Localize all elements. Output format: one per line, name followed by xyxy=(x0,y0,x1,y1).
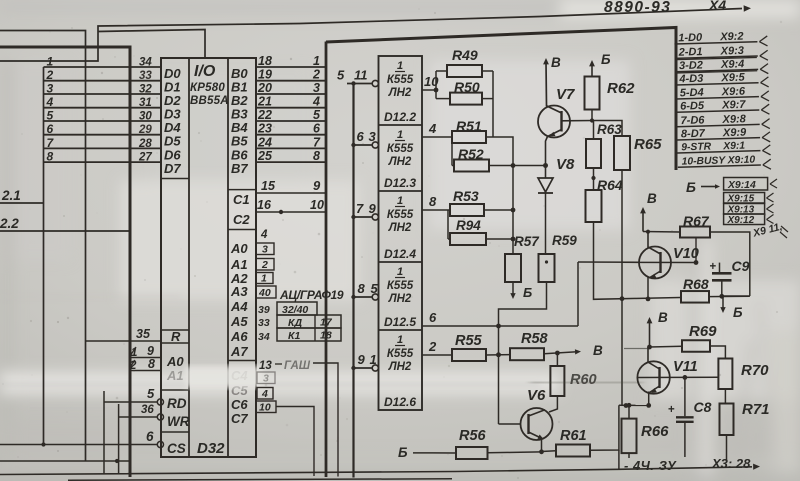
label R57 xyxy=(514,234,540,300)
svg-text:Х9:8: Х9:8 xyxy=(721,113,746,126)
pin box 3 (A0) xyxy=(256,243,274,256)
power B arrow (V10) xyxy=(640,191,657,232)
svg-text:40: 40 xyxy=(258,287,271,299)
svg-text:5: 5 xyxy=(371,281,379,296)
resistor R56 xyxy=(432,447,542,459)
svg-text:R68: R68 xyxy=(683,276,709,292)
svg-text:Х9:2: Х9:2 xyxy=(719,31,744,44)
svg-text:17: 17 xyxy=(320,317,333,329)
label net 5 xyxy=(313,108,321,122)
label pin 23 xyxy=(257,122,272,136)
svg-text:С7: С7 xyxy=(231,411,248,426)
svg-text:R67: R67 xyxy=(683,213,710,229)
label output 4 xyxy=(428,121,437,136)
label А5 pin xyxy=(230,314,248,329)
wire net 2.2 xyxy=(0,230,130,232)
svg-text:С9: С9 xyxy=(732,258,750,274)
pin circle CS xyxy=(157,441,163,447)
label pin 8 xyxy=(148,357,155,371)
inverter input pin 1 wire xyxy=(351,365,378,371)
svg-text:ЛН2: ЛН2 xyxy=(388,87,412,99)
power B arrow (V7 collector) xyxy=(551,55,561,70)
svg-text:CS: CS xyxy=(167,441,186,456)
svg-text:К555: К555 xyxy=(387,143,414,155)
label row number 7 xyxy=(47,136,55,150)
svg-text:9: 9 xyxy=(358,352,366,367)
svg-text:13: 13 xyxy=(259,360,272,372)
pin circle WR xyxy=(157,414,163,420)
resistor R55 xyxy=(452,349,510,361)
svg-text:33: 33 xyxy=(258,317,270,329)
label В1 xyxy=(231,80,248,95)
svg-text:8: 8 xyxy=(358,281,366,296)
svg-text:5: 5 xyxy=(313,108,321,122)
wire R51 R52 left tie xyxy=(451,137,453,166)
label А3 pin xyxy=(230,284,248,299)
boxed net Х9:13 xyxy=(724,204,774,216)
svg-text:В: В xyxy=(647,191,657,206)
svg-text:6-D5: 6-D5 xyxy=(680,100,705,113)
svg-text:А4: А4 xyxy=(230,299,248,314)
label X3:28 xyxy=(711,456,751,471)
svg-text:В: В xyxy=(551,55,561,70)
label R62 xyxy=(607,80,635,97)
svg-text:9: 9 xyxy=(369,201,377,216)
wire V10 base to V11 emitter xyxy=(622,262,628,408)
resistor R58 xyxy=(510,348,581,360)
svg-text:D12.2: D12.2 xyxy=(384,110,416,124)
svg-text:1: 1 xyxy=(397,195,403,207)
svg-text:А1: А1 xyxy=(230,257,248,272)
wire V7 base line from R62 node xyxy=(578,261,640,263)
label pin number 32 xyxy=(139,84,152,96)
svg-text:D12.4: D12.4 xyxy=(384,247,416,261)
svg-text:R52: R52 xyxy=(458,146,484,162)
svg-text:2: 2 xyxy=(261,259,268,271)
svg-text:А7: А7 xyxy=(230,344,248,359)
wire data row 3 to D32 pin 32 xyxy=(44,93,162,95)
svg-text:Б: Б xyxy=(398,445,408,460)
svg-text:2: 2 xyxy=(46,68,54,82)
svg-text:8-D7: 8-D7 xyxy=(681,128,706,141)
svg-text:С1: С1 xyxy=(233,192,250,207)
svg-text:18: 18 xyxy=(320,330,332,342)
label R55 xyxy=(455,333,483,349)
transistor V11 xyxy=(637,347,718,408)
svg-text:5-D4: 5-D4 xyxy=(680,87,704,100)
wire thick bus from left edge xyxy=(0,47,130,477)
label net 2.2 xyxy=(0,216,19,231)
svg-text:9-STR: 9-STR xyxy=(681,142,712,154)
table box 32/40 xyxy=(277,302,317,316)
svg-text:32/40: 32/40 xyxy=(282,304,308,316)
label R pin xyxy=(171,329,181,344)
boxed net Х9:14 xyxy=(724,178,777,192)
svg-text:2: 2 xyxy=(129,360,137,372)
svg-text:ЛН2: ЛН2 xyxy=(388,156,412,168)
pin circle RD xyxy=(157,399,163,405)
label В4 xyxy=(231,120,248,135)
svg-text:2-D1: 2-D1 xyxy=(678,46,703,59)
inverter output pin 8 wire xyxy=(422,209,448,211)
svg-text:3-D2: 3-D2 xyxy=(679,59,703,72)
X9 connector table rows xyxy=(674,30,771,172)
label pin 4 xyxy=(260,229,268,241)
svg-text:V10: V10 xyxy=(673,246,699,262)
label net 2 xyxy=(312,68,320,82)
svg-text:3: 3 xyxy=(313,81,320,95)
svg-text:1: 1 xyxy=(397,60,403,72)
boxed net Х9:12 xyxy=(724,214,774,226)
label 9 1 xyxy=(358,352,377,367)
svg-text:Х4: Х4 xyxy=(708,0,726,13)
label Х9:11 diagonal xyxy=(751,221,788,240)
label row number 6 xyxy=(47,122,54,136)
label V10 xyxy=(673,246,699,262)
svg-text:2: 2 xyxy=(312,68,320,82)
resistor R66 xyxy=(622,403,637,458)
svg-text:ГАШ: ГАШ xyxy=(284,360,311,372)
erasure smudge over C4 C5 xyxy=(185,366,263,388)
wire C2 output xyxy=(256,210,326,214)
svg-text:А3: А3 xyxy=(230,284,248,299)
wire bottom edge line xyxy=(68,479,452,480)
label 8 5 xyxy=(358,281,379,296)
label CS pin xyxy=(167,441,186,456)
label А4 pin xyxy=(230,299,248,314)
svg-text:5: 5 xyxy=(47,109,54,123)
power Б label (V10 cell) xyxy=(733,305,743,320)
label pin number 27 xyxy=(138,152,152,164)
wire R53 R94 left tie xyxy=(447,210,449,239)
pin box 10 (C6) xyxy=(256,401,276,414)
svg-text:1: 1 xyxy=(397,266,403,278)
svg-text:+: + xyxy=(668,404,675,416)
svg-text:КР580: КР580 xyxy=(190,82,225,94)
svg-text:6: 6 xyxy=(313,122,321,136)
label D2 xyxy=(164,93,181,108)
label 1 (A0 net) xyxy=(130,347,137,359)
inverter D12.6 cell text xyxy=(384,334,416,409)
label R58 xyxy=(521,331,549,347)
svg-text:V11: V11 xyxy=(673,359,698,375)
transistor V10 xyxy=(622,230,698,299)
label R56 xyxy=(459,428,487,444)
label pin 5 xyxy=(147,386,155,401)
resistor R61 xyxy=(542,405,619,470)
svg-text:R63: R63 xyxy=(597,122,622,137)
svg-text:6: 6 xyxy=(429,310,437,325)
resistor R69 xyxy=(650,340,726,358)
label C2 pin xyxy=(233,212,250,227)
label pin 9 xyxy=(147,344,154,358)
svg-text:6: 6 xyxy=(357,129,365,144)
svg-text:V6: V6 xyxy=(527,387,546,404)
transistor V7 xyxy=(538,58,594,178)
resistor R50 xyxy=(436,93,493,105)
svg-text:18: 18 xyxy=(258,54,272,68)
wire data row 2 to D32 pin 33 xyxy=(44,80,162,82)
wire V11 emitter node xyxy=(619,404,649,406)
svg-text:Х9:4: Х9:4 xyxy=(720,58,745,71)
label 6 3 xyxy=(357,129,377,144)
label I/O xyxy=(194,63,216,80)
svg-text:8: 8 xyxy=(429,194,437,209)
svg-text:R: R xyxy=(171,329,181,344)
svg-text:1: 1 xyxy=(370,352,377,367)
wire C6 net down xyxy=(276,407,314,477)
svg-text:Б: Б xyxy=(523,285,532,300)
svg-text:R60: R60 xyxy=(570,372,597,388)
label R60 (smudged) xyxy=(530,372,642,388)
label В5 xyxy=(231,134,248,149)
svg-text:Х9:10: Х9:10 xyxy=(727,155,756,167)
label D1 xyxy=(164,80,181,95)
label pin 6 xyxy=(146,429,154,444)
label V7 xyxy=(556,86,575,103)
svg-text:R53: R53 xyxy=(453,188,479,204)
svg-text:22: 22 xyxy=(257,108,272,122)
inverter D12.5 cell text xyxy=(384,266,416,329)
svg-text:ЛН2: ЛН2 xyxy=(388,293,412,305)
wire C1 output xyxy=(256,192,326,194)
svg-text:4-D3: 4-D3 xyxy=(678,73,703,86)
wire R51 to V7 base node xyxy=(493,137,515,254)
svg-text:7: 7 xyxy=(313,135,321,149)
wire A1 pin row xyxy=(130,370,161,372)
wire data row 1 to D32 pin 34 xyxy=(44,66,162,68)
wire RD pin 5 xyxy=(104,401,157,403)
boxed net Х9:15 xyxy=(724,193,774,205)
wire vertical to RD xyxy=(103,391,105,475)
svg-text:3: 3 xyxy=(369,129,377,144)
pin box 1 (A2) xyxy=(256,273,273,285)
label output 6 xyxy=(429,310,437,325)
wire B7 output row xyxy=(256,161,326,163)
resistor R51 xyxy=(452,131,493,143)
svg-text:R59: R59 xyxy=(552,233,577,248)
label row number 8 xyxy=(47,150,54,164)
wire B4 output row xyxy=(256,120,326,122)
svg-text:R50: R50 xyxy=(454,79,480,95)
svg-text:R61: R61 xyxy=(560,428,587,444)
label X4 xyxy=(708,0,726,13)
label pin number 34 xyxy=(139,57,152,69)
svg-text:D32: D32 xyxy=(197,440,225,457)
svg-text:29: 29 xyxy=(138,124,152,136)
svg-text:7: 7 xyxy=(356,201,364,216)
label 8890-93 xyxy=(604,0,671,16)
label net 6 xyxy=(313,122,321,136)
resistor R60 xyxy=(549,353,564,412)
svg-text:1: 1 xyxy=(313,54,320,68)
svg-text:3: 3 xyxy=(47,82,54,96)
label 13-ГАШ xyxy=(259,360,311,372)
label V11 xyxy=(673,359,698,375)
inverter output pin 4 wire xyxy=(422,136,452,138)
svg-text:6: 6 xyxy=(47,122,54,136)
svg-text:V8: V8 xyxy=(556,156,575,173)
label row number 2 xyxy=(46,68,54,82)
svg-text:- 4Ч. ЗУ: - 4Ч. ЗУ xyxy=(624,458,677,473)
wire bus line (thin) from left edge xyxy=(0,31,86,462)
label R63 xyxy=(597,122,622,137)
svg-text:10: 10 xyxy=(259,402,271,414)
svg-text:Х9:1: Х9:1 xyxy=(722,141,745,153)
svg-text:24: 24 xyxy=(257,135,272,149)
label R59 xyxy=(552,233,577,248)
label -4Ч.ЗУ xyxy=(624,458,677,473)
label R71 xyxy=(742,401,770,418)
svg-text:4: 4 xyxy=(428,121,437,136)
svg-text:4: 4 xyxy=(312,95,320,109)
svg-text:ВВ55А: ВВ55А xyxy=(190,95,229,107)
svg-text:Б: Б xyxy=(733,305,743,320)
label R61 xyxy=(560,428,587,444)
label R50 xyxy=(454,79,480,95)
label WR pin xyxy=(167,414,190,429)
label R70 xyxy=(741,362,769,379)
label row number 4 xyxy=(46,95,54,109)
wire B6 output row xyxy=(256,147,326,149)
label R65 xyxy=(634,136,662,153)
label В7 xyxy=(231,161,248,176)
label net 4 xyxy=(312,95,320,109)
wire vertical bus 1 xyxy=(325,42,328,478)
svg-text:Х9:3: Х9:3 xyxy=(719,45,744,58)
resistor R49 xyxy=(436,65,493,77)
svg-text:7-D6: 7-D6 xyxy=(680,114,705,127)
svg-text:3: 3 xyxy=(263,373,269,385)
svg-text:35: 35 xyxy=(136,327,151,341)
svg-text:Б: Б xyxy=(686,179,696,195)
svg-text:2.1: 2.1 xyxy=(1,188,21,203)
svg-text:20: 20 xyxy=(257,81,272,95)
svg-text:9: 9 xyxy=(147,344,154,358)
resistor R62 xyxy=(585,77,600,123)
label pin 33 xyxy=(258,317,270,329)
resistor R59 xyxy=(496,254,554,424)
label R51 xyxy=(456,118,482,134)
svg-text:Х9:14: Х9:14 xyxy=(727,180,756,191)
svg-text:В7: В7 xyxy=(231,161,248,176)
table box К1 18 xyxy=(277,328,341,342)
label V6 xyxy=(527,387,546,404)
transistor V6 xyxy=(499,408,553,454)
wire B5 output row xyxy=(256,134,326,136)
label net 9 xyxy=(313,178,321,193)
svg-text:15: 15 xyxy=(261,179,276,193)
label А7 pin xyxy=(230,344,248,359)
pin box 40 (A3) xyxy=(256,286,276,299)
svg-text:А1: А1 xyxy=(166,368,184,383)
label В2 xyxy=(231,93,248,108)
label pin number 29 xyxy=(138,124,152,136)
label net 1 xyxy=(313,54,320,68)
label row number 5 xyxy=(47,109,54,123)
svg-text:4: 4 xyxy=(261,388,268,400)
svg-text:28: 28 xyxy=(138,138,152,150)
svg-text:R66: R66 xyxy=(641,423,669,440)
label R67 xyxy=(683,213,710,229)
label C4 pin xyxy=(231,368,248,383)
svg-text:А0: А0 xyxy=(166,354,184,369)
wire vertical bus at data rows xyxy=(43,67,45,445)
label pin number 31 xyxy=(139,97,152,109)
svg-text:Х3: 28: Х3: 28 xyxy=(711,456,751,471)
label pin 15 xyxy=(261,179,276,193)
wire R49 R50 left tie xyxy=(434,71,439,99)
capacitor C9 xyxy=(710,261,732,299)
svg-text:RD: RD xyxy=(167,396,187,411)
svg-text:V7: V7 xyxy=(556,86,575,103)
label R53 xyxy=(453,188,479,204)
svg-text:КД: КД xyxy=(288,317,302,329)
label C8 xyxy=(694,399,712,415)
label pin 18 xyxy=(258,54,272,68)
svg-text:1: 1 xyxy=(261,273,267,285)
label R49 xyxy=(452,47,478,63)
svg-text:С6: С6 xyxy=(231,397,248,412)
label А0 pin xyxy=(230,241,248,256)
svg-text:К555: К555 xyxy=(387,209,414,221)
label pin number 28 xyxy=(138,138,152,150)
label R94 xyxy=(456,218,481,233)
inverter D12.3 cell text xyxy=(384,129,416,190)
inverter output pin 2 wire xyxy=(422,354,452,356)
label 5 11 xyxy=(337,68,368,83)
svg-text:33: 33 xyxy=(139,70,152,82)
svg-text:27: 27 xyxy=(138,152,152,164)
svg-text:19: 19 xyxy=(258,68,272,82)
wire R pin 35 xyxy=(86,340,162,342)
label output 10 xyxy=(424,74,439,89)
svg-text:R71: R71 xyxy=(742,401,770,418)
svg-text:4: 4 xyxy=(260,229,268,241)
svg-text:R94: R94 xyxy=(456,218,481,233)
label КР580 xyxy=(190,82,225,94)
resistor R67 xyxy=(643,227,750,314)
svg-text:R70: R70 xyxy=(741,362,769,379)
svg-text:К555: К555 xyxy=(387,348,414,360)
label C9 xyxy=(732,258,750,274)
resistor R52 xyxy=(452,160,489,172)
resistor R53 xyxy=(448,204,513,216)
capacitor C8 xyxy=(668,377,694,457)
wire B2 output row xyxy=(256,93,326,95)
resistor R71 xyxy=(720,404,734,462)
label А1 pin xyxy=(230,257,248,272)
label net 2.1 xyxy=(1,188,21,203)
label net 8 xyxy=(313,149,320,163)
wire data row 7 to D32 pin 28 xyxy=(44,147,162,149)
label output 2 xyxy=(428,339,437,354)
resistor R64 xyxy=(586,178,681,301)
wire vertical to WR xyxy=(118,404,120,475)
wire vertical bus 2 xyxy=(352,84,354,478)
inverter input pin 5 wire xyxy=(351,294,378,300)
svg-text:36: 36 xyxy=(141,404,154,416)
svg-text:11: 11 xyxy=(354,68,368,83)
svg-text:34: 34 xyxy=(258,331,270,343)
label net 10 xyxy=(310,198,324,212)
wire thick bus top to X9 table xyxy=(326,28,676,171)
svg-text:1-D0: 1-D0 xyxy=(678,32,703,45)
wire R52 right to emitter node xyxy=(489,163,548,168)
label ВВ55А xyxy=(190,95,229,107)
svg-text:39: 39 xyxy=(258,304,270,316)
inverter input pin 9 wire xyxy=(351,214,378,220)
